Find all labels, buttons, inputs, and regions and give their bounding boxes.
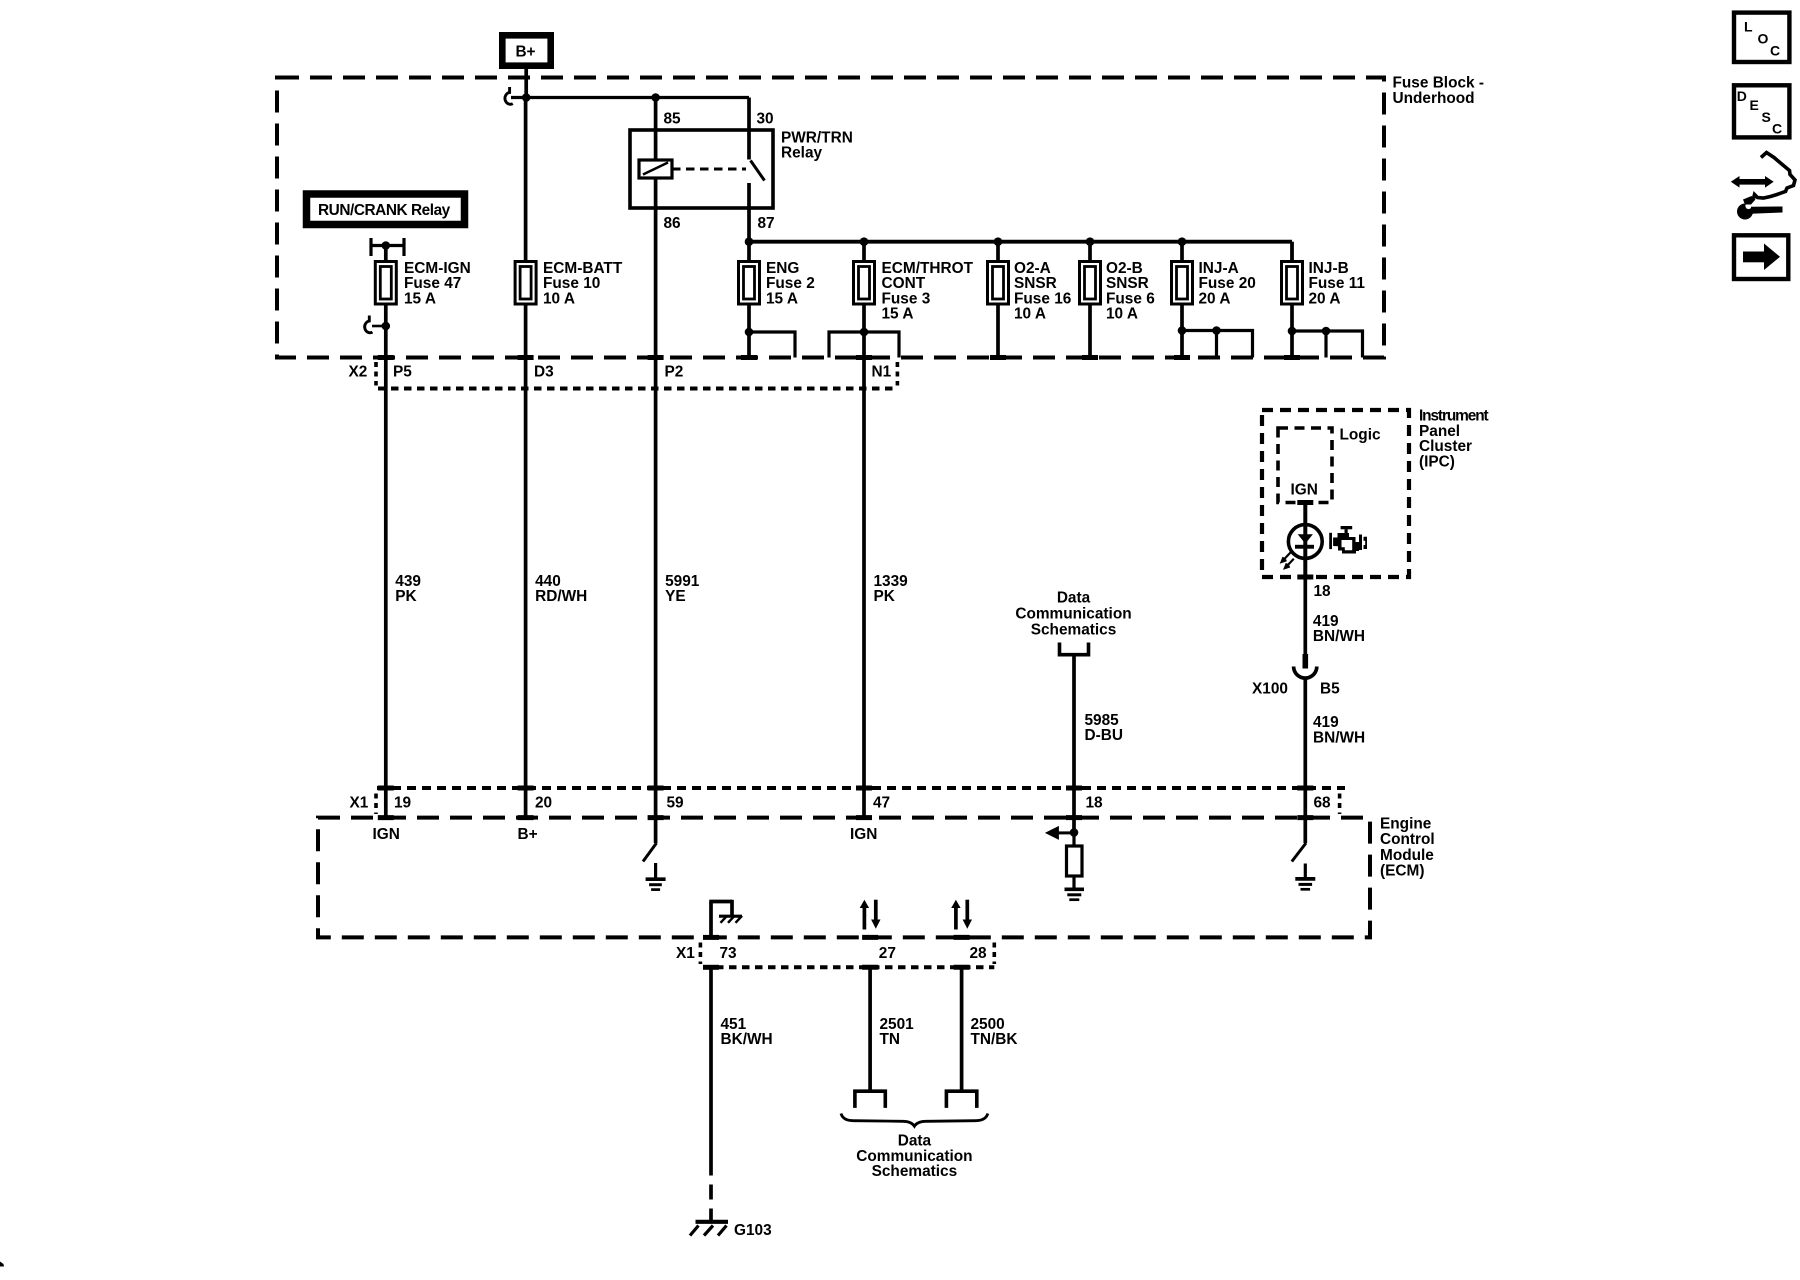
switch to ground pin 59 <box>643 843 657 862</box>
wire 2501 TN <box>868 967 872 1091</box>
bus wire B+ horizontal <box>511 96 749 99</box>
svg-text:86: 86 <box>664 215 681 232</box>
svg-text:27: 27 <box>879 945 896 962</box>
wire B+ down to bus <box>524 69 528 98</box>
fuse ECM-IGN Fuse 47 15A <box>375 260 470 307</box>
svg-text:L: L <box>1744 19 1753 35</box>
fuse O2-B SNSR Fuse 6 10A <box>1080 242 1155 323</box>
svg-text:85: 85 <box>664 111 682 128</box>
svg-text:Logic: Logic <box>1340 427 1381 444</box>
off-page connector symbol (upper) <box>1060 643 1089 655</box>
svg-text:C: C <box>1770 43 1780 59</box>
fuse block underhood dashed box <box>277 75 1484 358</box>
svg-text:28: 28 <box>970 945 988 962</box>
svg-text:20 A: 20 A <box>1199 290 1231 307</box>
wire below O2-B fuse <box>1088 304 1092 358</box>
svg-text:(ECM): (ECM) <box>1380 863 1424 880</box>
svg-text:RD/WH: RD/WH <box>535 588 587 605</box>
svg-text:P2: P2 <box>665 364 684 381</box>
fuse ECM/THROT CONT Fuse 3 15A <box>854 242 974 323</box>
svg-text:IGN: IGN <box>373 826 400 843</box>
svg-text:(IPC): (IPC) <box>1419 453 1455 470</box>
icon wiring navigation (arrows and wrench) <box>1731 153 1795 220</box>
svg-text:20: 20 <box>535 795 552 812</box>
run/crank feed bracket above ECM-IGN fuse <box>371 238 404 262</box>
wire relay 86 down (5991 column upper) <box>654 208 658 358</box>
svg-text:PK: PK <box>395 588 416 605</box>
switch to ground pin 68 <box>1292 843 1306 862</box>
check engine icon <box>1329 526 1367 554</box>
svg-text:20 A: 20 A <box>1309 290 1341 307</box>
junction INJ-A <box>1178 237 1187 246</box>
svg-text:G103: G103 <box>734 1222 772 1239</box>
IPC logic dashed box <box>1278 427 1381 503</box>
wire 2500 TN/BK <box>960 967 964 1091</box>
pin ticks at X1 dotted line <box>378 786 1314 791</box>
connector X2 band bottom dotted line <box>378 387 897 391</box>
svg-text:Schematics: Schematics <box>1031 622 1117 639</box>
connector 68 separator <box>1338 794 1342 815</box>
svg-text:B+: B+ <box>518 826 538 843</box>
svg-text:30: 30 <box>757 111 774 128</box>
svg-text:18: 18 <box>1086 795 1104 812</box>
icon DESC button <box>1734 85 1789 137</box>
pin tick logic box <box>1297 500 1313 505</box>
svg-text:15 A: 15 A <box>766 290 798 307</box>
svg-text:73: 73 <box>720 945 737 962</box>
wire 440 RD/WH (D3 to X1-20) <box>524 358 528 818</box>
INJ-B branch stub wire <box>1324 331 1327 358</box>
wire 439 PK (P5 to X1-19) <box>384 358 388 818</box>
svg-text:BN/WH: BN/WH <box>1313 628 1365 645</box>
wire 5991 YE (P2 to X1-59) <box>654 358 658 844</box>
MIL indicator LED <box>1288 525 1322 559</box>
serial data arrows pin 28 <box>951 900 972 930</box>
connector X1 bottom separator <box>699 943 703 965</box>
instrument panel cluster IPC dashed box <box>1262 408 1488 578</box>
svg-text:Control: Control <box>1380 831 1435 848</box>
connector N1 separator <box>896 362 900 386</box>
data communication schematics note (upper) <box>1015 590 1131 639</box>
junction ECM/THROT branch <box>860 328 869 337</box>
svg-text:TN/BK: TN/BK <box>971 1031 1018 1048</box>
fuse ENG Fuse 2 15A <box>739 260 815 307</box>
svg-text:68: 68 <box>1314 795 1332 812</box>
icon next arrow button <box>1734 235 1788 279</box>
ground pin 59 <box>646 863 666 890</box>
inline connector X100 B5 <box>1252 654 1340 698</box>
svg-text:15 A: 15 A <box>882 306 914 323</box>
connector X1 separator <box>374 794 378 815</box>
wire 451 dashed continuation <box>709 1161 713 1221</box>
wire below ENG fuse <box>747 304 751 358</box>
wire 5985 D-BU <box>1072 655 1076 833</box>
RUN/CRANK Relay label box <box>307 194 465 225</box>
svg-text:TN: TN <box>880 1031 901 1048</box>
fuse feed bus horizontal <box>749 240 1292 244</box>
pin ticks at bottom band dotted line <box>703 965 970 970</box>
svg-text:Underhood: Underhood <box>1393 90 1475 107</box>
LED light arrows <box>1282 553 1294 569</box>
svg-text:N1: N1 <box>872 364 892 381</box>
pin ticks at fuse block bottom edge <box>378 355 1300 360</box>
connector X2 separator <box>374 362 378 386</box>
junction O2-B <box>1086 237 1095 246</box>
wire relay 87 down to fuse bus <box>747 208 751 262</box>
svg-text:P5: P5 <box>393 364 412 381</box>
curl continuation symbol at bus left end <box>505 87 513 104</box>
INJ-A branch bracket <box>1182 331 1253 358</box>
svg-text:BN/WH: BN/WH <box>1313 729 1365 746</box>
svg-text:47: 47 <box>873 795 890 812</box>
svg-text:19: 19 <box>394 795 411 812</box>
off-page connector wire 28 <box>946 1091 976 1108</box>
serial data arrows pin 27 <box>860 900 881 930</box>
wire below O2-A fuse <box>996 304 1000 358</box>
off-page connector wire 27 <box>855 1091 885 1108</box>
svg-text:15 A: 15 A <box>404 290 436 307</box>
svg-text:O: O <box>1758 30 1769 46</box>
ground G103 <box>690 1222 772 1239</box>
wire 1339 PK (N1 to X1-47) <box>862 358 866 818</box>
fuse INJ-B Fuse 11 20A <box>1282 260 1366 307</box>
svg-text:Communication: Communication <box>1015 606 1131 623</box>
svg-text:87: 87 <box>758 215 775 232</box>
ENG branch bracket <box>749 332 795 358</box>
svg-text:59: 59 <box>667 795 684 812</box>
svg-text:B5: B5 <box>1320 681 1340 698</box>
junction pin 18 <box>1070 828 1079 837</box>
svg-text:RUN/CRANK Relay: RUN/CRANK Relay <box>318 202 451 219</box>
connector X1 band top dotted line <box>377 786 1345 790</box>
arrow to data bus pin 18 <box>1045 826 1074 840</box>
svg-text:PK: PK <box>874 588 895 605</box>
svg-text:IGN: IGN <box>850 826 877 843</box>
pin ticks at ECM bottom edge <box>703 935 970 940</box>
ground pin 18 <box>1065 889 1085 899</box>
svg-text:IGN: IGN <box>1291 482 1318 499</box>
INJ-A branch stub wire <box>1215 331 1218 358</box>
curl continuation at ECM-IGN <box>365 316 373 333</box>
svg-text:X100: X100 <box>1252 681 1288 698</box>
junction O2-A <box>994 237 1003 246</box>
ECM/THROT branch bracket left <box>829 332 864 358</box>
fuse O2-A SNSR Fuse 16 10A <box>988 242 1072 323</box>
svg-text:X1: X1 <box>676 945 695 962</box>
B+ terminal box <box>502 35 550 65</box>
relay coil <box>639 130 672 208</box>
svg-text:Relay: Relay <box>781 145 823 162</box>
wire logic to MIL lamp <box>1303 503 1307 578</box>
wire below ECM/THROT fuse <box>862 304 866 358</box>
svg-text:Engine: Engine <box>1380 816 1432 833</box>
case ground pin 73 <box>709 900 742 938</box>
svg-text:BK/WH: BK/WH <box>721 1031 773 1048</box>
junction INJ-B branch stub <box>1322 327 1331 336</box>
resistor pin 18 <box>1067 833 1083 888</box>
junction B+/ECM-BATT <box>522 93 531 102</box>
bus corner down to INJ-B <box>1290 242 1294 262</box>
junction relay 85 <box>651 93 660 102</box>
svg-text:B+: B+ <box>515 44 535 61</box>
svg-text:D3: D3 <box>534 364 554 381</box>
wire below INJ-A fuse <box>1180 304 1184 358</box>
svg-text:YE: YE <box>665 588 686 605</box>
svg-text:10 A: 10 A <box>543 290 575 307</box>
junction INJ-A branch <box>1178 326 1187 335</box>
svg-text:D-BU: D-BU <box>1085 727 1123 744</box>
junction 87 bus <box>745 237 754 246</box>
svg-text:10 A: 10 A <box>1014 306 1046 323</box>
data communication schematics note (lower) <box>856 1133 972 1181</box>
junction ECM-IGN curl <box>382 322 391 331</box>
wire below ECM-IGN fuse <box>384 304 388 358</box>
wire 419 BN/WH upper <box>1303 577 1307 668</box>
svg-text:C: C <box>1772 121 1782 137</box>
wire below ECM-BATT fuse <box>524 304 528 358</box>
svg-text:X2: X2 <box>349 364 368 381</box>
fuse ECM-BATT Fuse 10 10A <box>515 98 623 308</box>
brace data communication <box>841 1114 988 1127</box>
ECM/THROT branch bracket right <box>864 332 899 358</box>
ground pin 68 <box>1295 864 1315 890</box>
junction INJ-B branch <box>1288 327 1297 336</box>
icon LOC button <box>1734 13 1789 62</box>
fuse INJ-A Fuse 20 20A <box>1172 242 1256 308</box>
junction ECM/THROT <box>860 237 869 246</box>
connector X1 bottom band dotted line <box>703 965 994 969</box>
svg-text:E: E <box>1750 97 1759 113</box>
connector 28 separator <box>992 943 996 965</box>
wire 419 BN/WH lower <box>1303 678 1307 843</box>
engine control module ECM dashed box <box>318 816 1435 938</box>
svg-text:18: 18 <box>1314 583 1332 600</box>
svg-text:Schematics: Schematics <box>872 1163 958 1180</box>
relay switch 30-87 <box>749 130 765 208</box>
svg-text:D: D <box>1737 88 1747 104</box>
wire to relay pin 85 <box>654 98 658 131</box>
INJ-B branch bracket <box>1292 331 1363 358</box>
stray mark bottom left <box>0 1262 4 1267</box>
PWR/TRN relay box <box>630 130 853 208</box>
junction ENG branch <box>745 328 754 337</box>
svg-text:10 A: 10 A <box>1106 306 1138 323</box>
wire 451 BK/WH <box>709 967 713 1160</box>
wire below INJ-B fuse <box>1290 304 1294 358</box>
svg-text:X1: X1 <box>350 795 369 812</box>
junction INJ-A branch stub <box>1212 326 1221 335</box>
svg-text:Module: Module <box>1380 847 1434 864</box>
svg-text:S: S <box>1762 109 1771 125</box>
pin ticks at ECM top edge <box>378 815 1314 820</box>
relay actuation dashed link <box>672 168 746 171</box>
wire to relay pin 30 <box>747 98 751 131</box>
svg-text:Data: Data <box>1057 590 1091 607</box>
